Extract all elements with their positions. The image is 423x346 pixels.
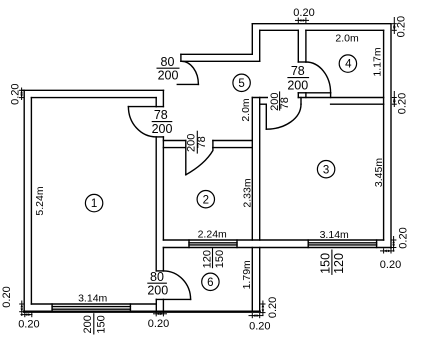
wall room6 east east line	[259, 248, 261, 312]
label D4 fraction line (vertical)	[279, 91, 281, 110]
svg-text:3: 3	[323, 164, 329, 176]
fraction lines of door labels	[94, 68, 332, 334]
window W2 glazing lines	[189, 242, 237, 244]
window W2 left cap	[188, 240, 190, 248]
wall room1-hall west line upper	[155, 98, 157, 107]
tick below right corner horizontal 0.20	[380, 250, 395, 252]
step outer vertical	[251, 24, 253, 55]
svg-text:5: 5	[238, 78, 244, 90]
tick bottom-mid horizontal 0.20	[153, 313, 167, 315]
window W3 glazing lines	[308, 242, 376, 244]
door D3 leaf	[306, 92, 331, 94]
node room 1 circle	[85, 194, 102, 211]
svg-text:0.20: 0.20	[18, 319, 39, 331]
node room 3 circle	[317, 161, 334, 178]
room2 door left jamb cap	[185, 141, 187, 148]
door D3 arc	[306, 62, 331, 93]
label D1 fraction line	[152, 121, 173, 123]
node room 5 circle	[233, 74, 250, 91]
room2 door arc	[186, 148, 213, 175]
room2 top wall lower east	[213, 147, 252, 149]
label D3 fraction line	[287, 77, 309, 79]
dimension ticks	[19, 17, 397, 318]
svg-text:78: 78	[279, 97, 291, 109]
door D3 post cap	[298, 92, 306, 94]
room number circles	[85, 55, 356, 291]
wall room1-room6 east line	[162, 248, 164, 271]
svg-text:200: 200	[158, 69, 179, 83]
window W1 right cap	[129, 304, 131, 312]
svg-text:200: 200	[82, 315, 94, 333]
wall room5-room4 east line	[305, 30, 307, 62]
top wall inner east segment	[306, 29, 384, 31]
svg-text:2.33m: 2.33m	[242, 178, 254, 207]
svg-text:6: 6	[207, 277, 213, 289]
door D3 post west	[297, 93, 299, 98]
door D1 bottom cap	[156, 136, 163, 138]
door D4 arc	[266, 104, 301, 129]
svg-text:150: 150	[96, 315, 108, 333]
room2 top wall upper west	[163, 140, 185, 142]
svg-text:0.20: 0.20	[267, 297, 279, 318]
svg-text:78: 78	[291, 64, 305, 78]
door D5 arc	[163, 271, 190, 300]
tick right-mid 0.20	[393, 91, 395, 107]
wire bottom outer wall (thick)	[24, 311, 260, 313]
door D3 jamb	[330, 93, 332, 98]
label D5 fraction line	[147, 282, 167, 284]
door D1 top cap	[156, 106, 163, 108]
right inner wall	[383, 30, 385, 240]
label W2 fraction line (vertical)	[212, 248, 214, 268]
svg-text:2.24m: 2.24m	[198, 229, 227, 241]
door D1 leaf	[128, 106, 156, 108]
svg-text:3.14m: 3.14m	[320, 229, 349, 241]
svg-text:0.20: 0.20	[10, 83, 22, 104]
door D3 post east	[305, 93, 307, 98]
window W3 left cap	[307, 240, 309, 248]
wire room1 top outer wall	[22, 89, 164, 91]
svg-text:0.20: 0.20	[148, 318, 169, 330]
svg-text:0.20: 0.20	[249, 321, 270, 333]
door D5 cap	[156, 270, 163, 272]
label W3 fraction line (vertical)	[331, 250, 333, 275]
tick arrowheads	[20, 19, 395, 317]
top wall inner west segment	[260, 29, 299, 31]
window W1 left cap	[51, 304, 53, 312]
wall room1-mid east line middle	[162, 137, 164, 240]
wall room6 east west line	[251, 248, 253, 312]
node room 4 circle	[339, 55, 356, 72]
room3 top wall lower west stub	[260, 103, 266, 105]
svg-text:200: 200	[147, 283, 168, 297]
svg-text:3.14m: 3.14m	[78, 292, 107, 304]
svg-text:2.0m: 2.0m	[335, 32, 359, 44]
svg-text:0.20: 0.20	[380, 259, 401, 271]
svg-text:0.20: 0.20	[293, 7, 314, 19]
hall top wall inner	[181, 60, 260, 62]
svg-text:150: 150	[318, 253, 332, 274]
wire left outer wall	[23, 90, 25, 312]
svg-text:2: 2	[203, 194, 209, 206]
svg-text:80: 80	[150, 270, 164, 284]
room2 top wall upper east	[213, 140, 252, 142]
label D2 fraction line	[157, 67, 180, 69]
svg-text:150: 150	[214, 250, 226, 268]
svg-text:1.79m: 1.79m	[241, 260, 253, 289]
svg-text:0.20: 0.20	[396, 93, 408, 114]
wire left inner wall	[30, 98, 32, 304]
top wall outer	[252, 23, 391, 25]
svg-text:80: 80	[161, 55, 175, 69]
room2 door leaf	[185, 148, 187, 175]
tick right-bottom vertical 0.20	[393, 236, 395, 252]
svg-text:78: 78	[154, 108, 168, 122]
svg-text:1: 1	[91, 198, 97, 210]
wall room1-hall east line upper	[162, 90, 164, 106]
room2 door right jamb cap	[212, 141, 214, 148]
room2 top wall lower west	[163, 147, 185, 149]
wall room5-room4 end cap	[298, 61, 306, 63]
window W3 right cap	[376, 240, 378, 248]
wire bottom inner wall room1	[31, 303, 156, 305]
svg-text:78: 78	[196, 136, 208, 148]
door D2 leaf	[177, 83, 198, 85]
bottom band wall lower line	[163, 247, 391, 249]
svg-text:5.24m: 5.24m	[34, 186, 46, 215]
label room2-door fraction line (vertical)	[196, 131, 198, 154]
svg-text:1.17m: 1.17m	[372, 47, 384, 76]
wall room5-room3 east line	[259, 98, 261, 241]
tick bottom-right corner vertical 0.20	[262, 301, 264, 317]
window W1 glazing lines	[52, 306, 130, 308]
wall stub left of bottom wall jog	[155, 299, 157, 311]
door D5 leaf	[156, 298, 190, 300]
room3 top wall upper east segment	[298, 97, 383, 99]
wall room5-room4 west line	[297, 30, 299, 62]
svg-text:120: 120	[201, 250, 213, 268]
svg-text:200: 200	[152, 122, 173, 136]
svg-text:2.0m: 2.0m	[240, 98, 252, 122]
hall top wall left cap	[180, 54, 182, 61]
svg-text:0.20: 0.20	[1, 286, 13, 307]
bottom band wall upper line	[163, 239, 383, 241]
svg-text:4: 4	[345, 59, 352, 71]
label W1 fraction line (vertical)	[93, 313, 95, 334]
svg-text:3.45m: 3.45m	[373, 158, 385, 187]
wire room1 top inner wall	[31, 97, 156, 99]
door D4 north jamb and leaf	[265, 104, 267, 129]
door D4 south jamb	[300, 98, 302, 105]
tick bottom-right corner horizontal 0.20	[249, 315, 264, 317]
svg-text:200: 200	[287, 78, 308, 92]
right outer wall	[390, 24, 392, 248]
door D2 arc	[182, 61, 199, 84]
svg-text:120: 120	[332, 253, 346, 274]
tick top-left 0.20	[21, 88, 23, 101]
wall room5-room3 west line	[251, 98, 253, 241]
hall top wall outer	[181, 53, 252, 55]
tick bottom-left vertical 0.20	[21, 301, 23, 317]
step inner vertical	[259, 30, 261, 61]
svg-text:0.20: 0.20	[398, 227, 410, 248]
node room 2 circle	[197, 191, 214, 208]
window W2 right cap	[236, 240, 238, 248]
tick top 0.20	[297, 18, 299, 24]
room3 top wall lower east segment	[331, 103, 384, 105]
tick top-right 0.20	[393, 17, 395, 34]
svg-text:0.20: 0.20	[396, 16, 408, 37]
node room 6 circle	[202, 273, 219, 290]
room3 top wall upper west stub	[252, 97, 267, 99]
wall room1-mid west line middle	[155, 137, 157, 271]
door D1 arc	[128, 107, 156, 137]
tick bottom-left horizontal 0.20	[21, 314, 33, 316]
